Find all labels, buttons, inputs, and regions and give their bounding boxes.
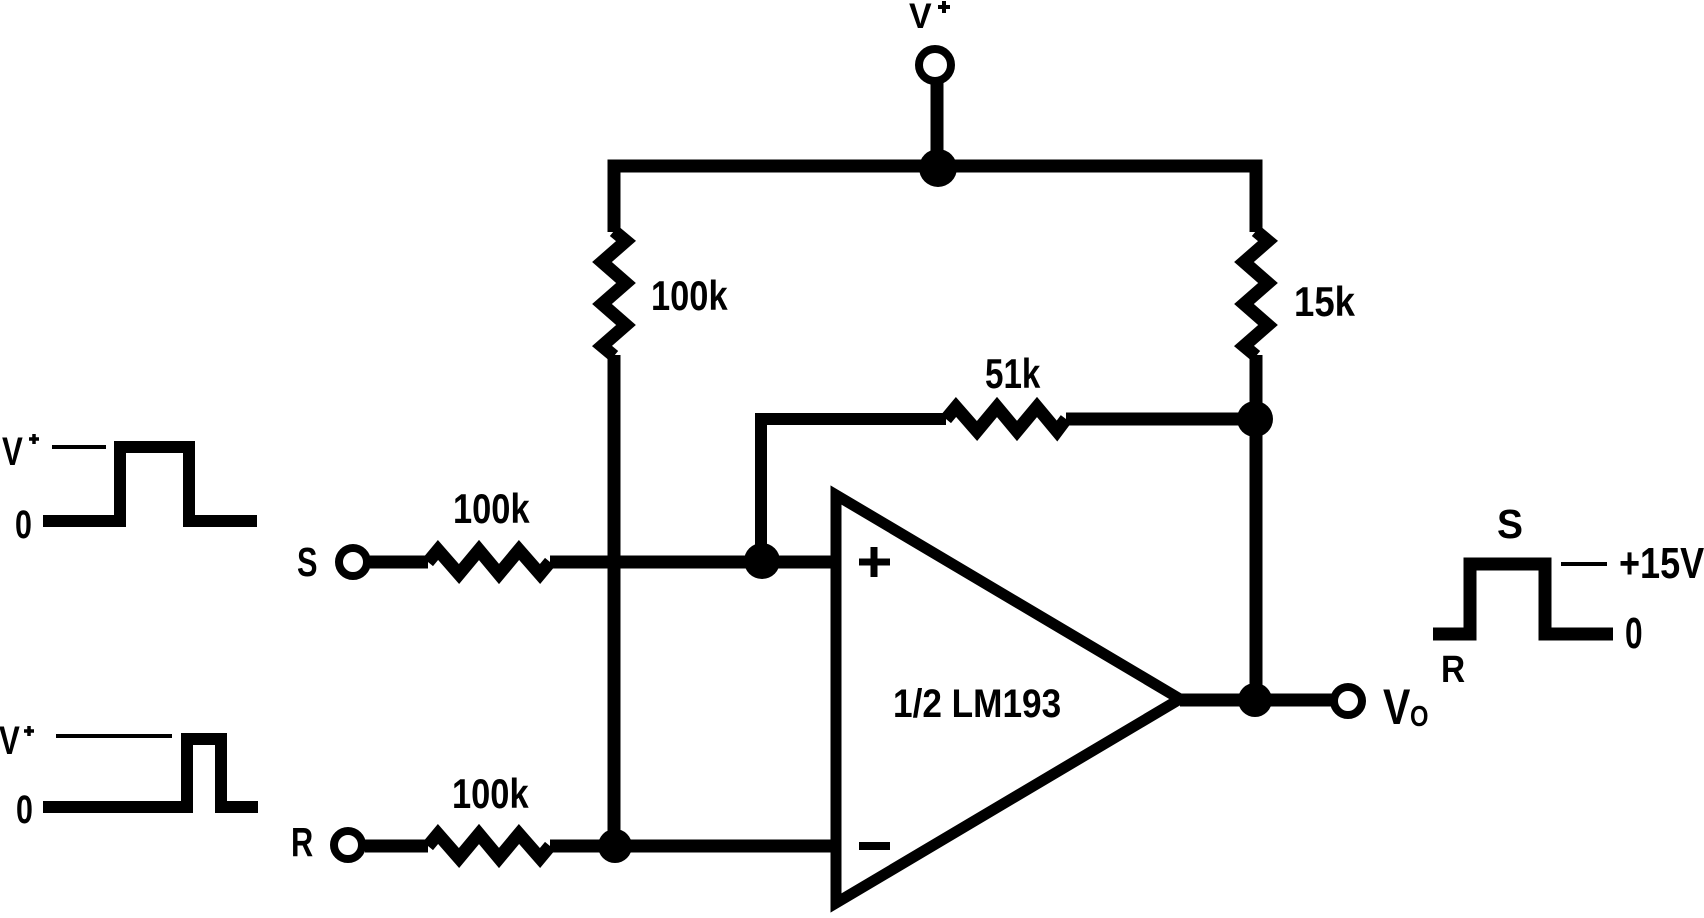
svg-text:100k: 100k [651,273,728,320]
wire right vertical [1250,355,1263,700]
junction feedback/15k [1237,401,1273,437]
svg-text:51k: 51k [985,351,1041,398]
node Vo label [1383,679,1428,735]
resistor 51k [946,407,1066,431]
wire feedback left [761,419,946,562]
op-amp U1 triangle [836,495,1180,903]
svg-text:R: R [291,819,313,865]
svg-text:V: V [1383,679,1411,735]
terminal S circle [339,548,367,576]
wire S lead [370,556,428,569]
svg-text:S: S [1497,502,1523,547]
svg-text:V: V [0,718,20,763]
svg-text:100k: 100k [452,771,529,818]
wire S to op-amp [550,556,836,569]
waveform R input: pulse trace [43,739,258,807]
svg-text:15k: 15k [1294,279,1355,326]
svg-text:0: 0 [1625,609,1643,658]
svg-text:O: O [1410,700,1428,733]
wire output [1180,694,1332,707]
node V+ label [909,0,950,36]
svg-text:V: V [909,0,932,36]
wire feedback right [1066,413,1256,426]
op-amp - input mark [859,842,890,850]
resistor 100k R [428,834,550,858]
resistor 100k pull-up [602,231,626,356]
wire R to op-amp [550,840,836,853]
waveform output: pulse trace [1433,564,1613,634]
waveform S input: V+ label [2,429,39,474]
waveform R input: V+ level line [56,734,172,738]
svg-text:100k: 100k [453,486,530,533]
svg-text:1/2 LM193: 1/2 LM193 [893,681,1061,726]
svg-text:R: R [1441,648,1465,690]
terminal Vo circle [1334,687,1362,715]
resistor 100k S [428,550,550,574]
waveform S input: pulse trace [43,447,257,521]
terminal R circle [334,831,362,859]
junction V+ rail [919,149,957,187]
wire R lead [365,840,428,853]
wire V+ stub [931,82,944,168]
svg-text:0: 0 [15,502,32,547]
waveform output: +15V level line [1561,562,1607,566]
V+ terminal circle [919,49,951,81]
op-amp + input mark [859,547,890,577]
svg-text:S: S [297,539,318,585]
junction R/pull-up [598,829,632,863]
svg-text:V: V [2,429,23,474]
waveform S input: V+ level line [52,445,106,449]
junction output [1238,683,1272,717]
waveform R input: V+ label [0,718,34,763]
resistor 15k [1244,231,1268,356]
svg-text:+15V: +15V [1619,539,1704,588]
wire top rail [614,166,1256,232]
junction S/feedback [744,543,780,579]
svg-text:0: 0 [16,787,33,832]
wire left vertical [608,355,621,846]
